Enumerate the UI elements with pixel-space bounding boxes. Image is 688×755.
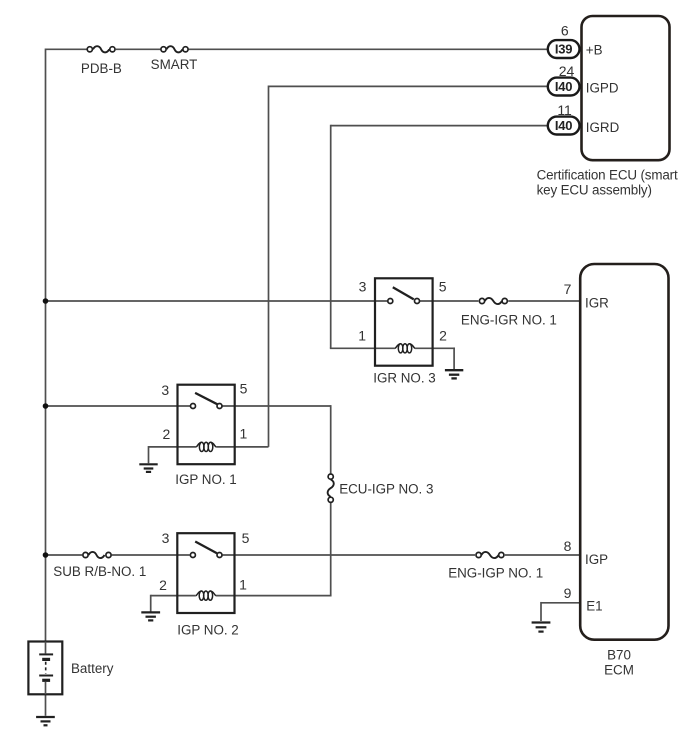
wire IGR NO.3 pin1 coil left [330, 347, 395, 349]
fuse ECU-IGP NO. 3 (vertical) [328, 474, 334, 502]
svg-text:IGP: IGP [585, 552, 608, 567]
junction dot bus-IGP1 [43, 403, 49, 409]
ground E1 [532, 623, 551, 632]
fuse SUB R/B-NO. 1 [83, 552, 111, 558]
relay IGR NO.3 switch blade [393, 287, 414, 299]
wire +B feed to I39 connector [189, 48, 549, 50]
svg-text:3: 3 [359, 278, 367, 294]
svg-text:+B: +B [586, 42, 603, 57]
svg-text:3: 3 [161, 382, 169, 398]
svg-text:IGRD: IGRD [586, 120, 620, 135]
fuse SMART [161, 46, 188, 52]
wire E1 ground stem [540, 602, 542, 621]
connector oval I40 pin 11 [548, 117, 580, 135]
wire battery bus vertical [45, 48, 47, 641]
ground IGP NO.2 pin2 [141, 612, 160, 620]
svg-text:key ECU assembly): key ECU assembly) [537, 183, 652, 198]
relay IGP NO.2 coil winding [196, 591, 216, 600]
svg-text:1: 1 [239, 577, 247, 593]
wire IGP NO.2 pin2 to ground corner [151, 595, 196, 597]
svg-text:B70: B70 [607, 647, 631, 662]
svg-text:IGP NO. 2: IGP NO. 2 [177, 623, 239, 638]
svg-text:I40: I40 [555, 118, 572, 133]
svg-text:ENG-IGR NO. 1: ENG-IGR NO. 1 [461, 312, 557, 327]
wire IGP NO.1 ground stem [148, 446, 150, 463]
junction dot bus-IGR [43, 298, 49, 304]
relay IGP NO.2 switch blade [195, 542, 217, 554]
relay IGP NO.1 switch blade [195, 393, 217, 404]
fuse PDB-B [87, 46, 115, 52]
battery [28, 642, 62, 695]
relay IGP NO. 2 [177, 533, 234, 613]
svg-text:ECU-IGP NO. 3: ECU-IGP NO. 3 [339, 482, 433, 497]
wire IGP NO.1 pin1 to IGPD vertical [216, 446, 268, 448]
svg-text:SMART: SMART [151, 57, 198, 72]
wire IGP NO.2 coil right to vertical [216, 595, 332, 597]
svg-text:9: 9 [564, 585, 572, 601]
wire IGR row to fuse [420, 300, 478, 302]
svg-text:1: 1 [358, 328, 366, 344]
wire IGP NO.2 ground stem [150, 595, 152, 612]
wire bottom row to SUB fuse [46, 554, 83, 556]
svg-text:5: 5 [242, 530, 250, 546]
svg-text:2: 2 [439, 328, 447, 344]
relay IGP NO.2 switch contact pin 5 [217, 553, 222, 558]
fuse ENG-IGR NO. 1 [479, 298, 507, 304]
wire vertical to ECU-IGP fuse top [330, 405, 332, 473]
relay IGR NO.3 coil winding [395, 344, 415, 353]
svg-text:24: 24 [559, 63, 575, 79]
wire IGP NO.1 pin2 to ground corner [149, 446, 197, 448]
svg-text:IGP NO. 1: IGP NO. 1 [175, 472, 237, 487]
Certification ECU box [582, 16, 670, 160]
svg-text:3: 3 [162, 530, 170, 546]
ground IGR NO.3 pin2 [445, 370, 463, 378]
battery case [28, 642, 62, 695]
wire IGP NO.1 row left [46, 405, 191, 407]
svg-text:SUB R/B-NO. 1: SUB R/B-NO. 1 [53, 564, 146, 579]
ground IGP NO.1 pin2 [139, 464, 157, 472]
relay IGP NO. 1 [178, 385, 235, 465]
wire IGR NO.3 coil right to ground corner [415, 347, 455, 349]
svg-text:I39: I39 [555, 42, 572, 57]
relay IGP NO.1 body [178, 385, 235, 465]
wire IGRD vertical [330, 125, 332, 349]
relay IGR NO. 3 [375, 278, 433, 365]
wire +B feed top left segment [46, 48, 87, 50]
svg-text:Certification ECU (smart: Certification ECU (smart [537, 168, 678, 183]
svg-text:IGR NO. 3: IGR NO. 3 [373, 371, 436, 386]
wire battery to ground [45, 694, 47, 716]
relay IGP NO.1 switch contact pin 5 [217, 404, 222, 409]
svg-text:5: 5 [439, 278, 447, 294]
svg-text:8: 8 [564, 538, 572, 554]
wire SUB fuse to IGP NO.2 [112, 554, 190, 556]
relay IGP NO.1 switch contact pin 3 [191, 404, 196, 409]
svg-text:Battery: Battery [71, 661, 114, 676]
wire ENG-IGP fuse to ECM pin8 [505, 554, 581, 556]
connector oval I39 pin 6 [548, 40, 580, 58]
svg-text:7: 7 [564, 281, 572, 297]
wire IGP NO.2 pin5 to ENG-IGP fuse [223, 554, 475, 556]
relay IGP NO.2 body [177, 533, 234, 613]
wire IGPD horizontal [269, 85, 549, 87]
svg-text:5: 5 [240, 380, 248, 396]
svg-text:6: 6 [561, 22, 569, 38]
ECM box [580, 264, 668, 640]
wire IGR row left [46, 300, 388, 302]
svg-text:11: 11 [557, 102, 572, 118]
wire IGR NO.3 ground stem [453, 347, 455, 369]
wire IGPD vertical [268, 86, 270, 447]
wire ECU-IGP fuse bottom to corner [330, 503, 332, 596]
svg-text:2: 2 [159, 577, 167, 593]
svg-text:ENG-IGP NO. 1: ENG-IGP NO. 1 [448, 566, 543, 581]
svg-text:ECM: ECM [604, 662, 634, 677]
svg-text:IGR: IGR [585, 296, 609, 311]
relay IGP NO.2 switch contact pin 3 [190, 553, 195, 558]
junction dot bus-bottom [43, 552, 49, 558]
svg-text:PDB-B: PDB-B [81, 61, 122, 76]
wire +B feed between fuses [116, 48, 161, 50]
connector oval I40 pin 24 [548, 78, 580, 96]
wire IGP NO.1 pin5 to vertical [223, 405, 331, 407]
relay IGP NO.1 coil winding [196, 442, 216, 451]
svg-text:1: 1 [240, 425, 248, 441]
relay IGR NO.3 body [375, 278, 433, 365]
ground battery [36, 717, 55, 725]
wire E1 horizontal [541, 602, 581, 604]
relay IGR NO.3 switch contact pin 3 [388, 299, 393, 304]
fuse ENG-IGP NO. 1 [476, 552, 504, 558]
wire IGRD horizontal [331, 125, 549, 127]
relay IGR NO.3 switch contact pin 5 [415, 299, 420, 304]
svg-text:2: 2 [163, 426, 171, 442]
svg-text:E1: E1 [586, 598, 602, 613]
svg-text:I40: I40 [555, 79, 572, 94]
svg-text:IGPD: IGPD [586, 81, 619, 96]
wire IGR row fuse to ECM pin7 [508, 300, 580, 302]
